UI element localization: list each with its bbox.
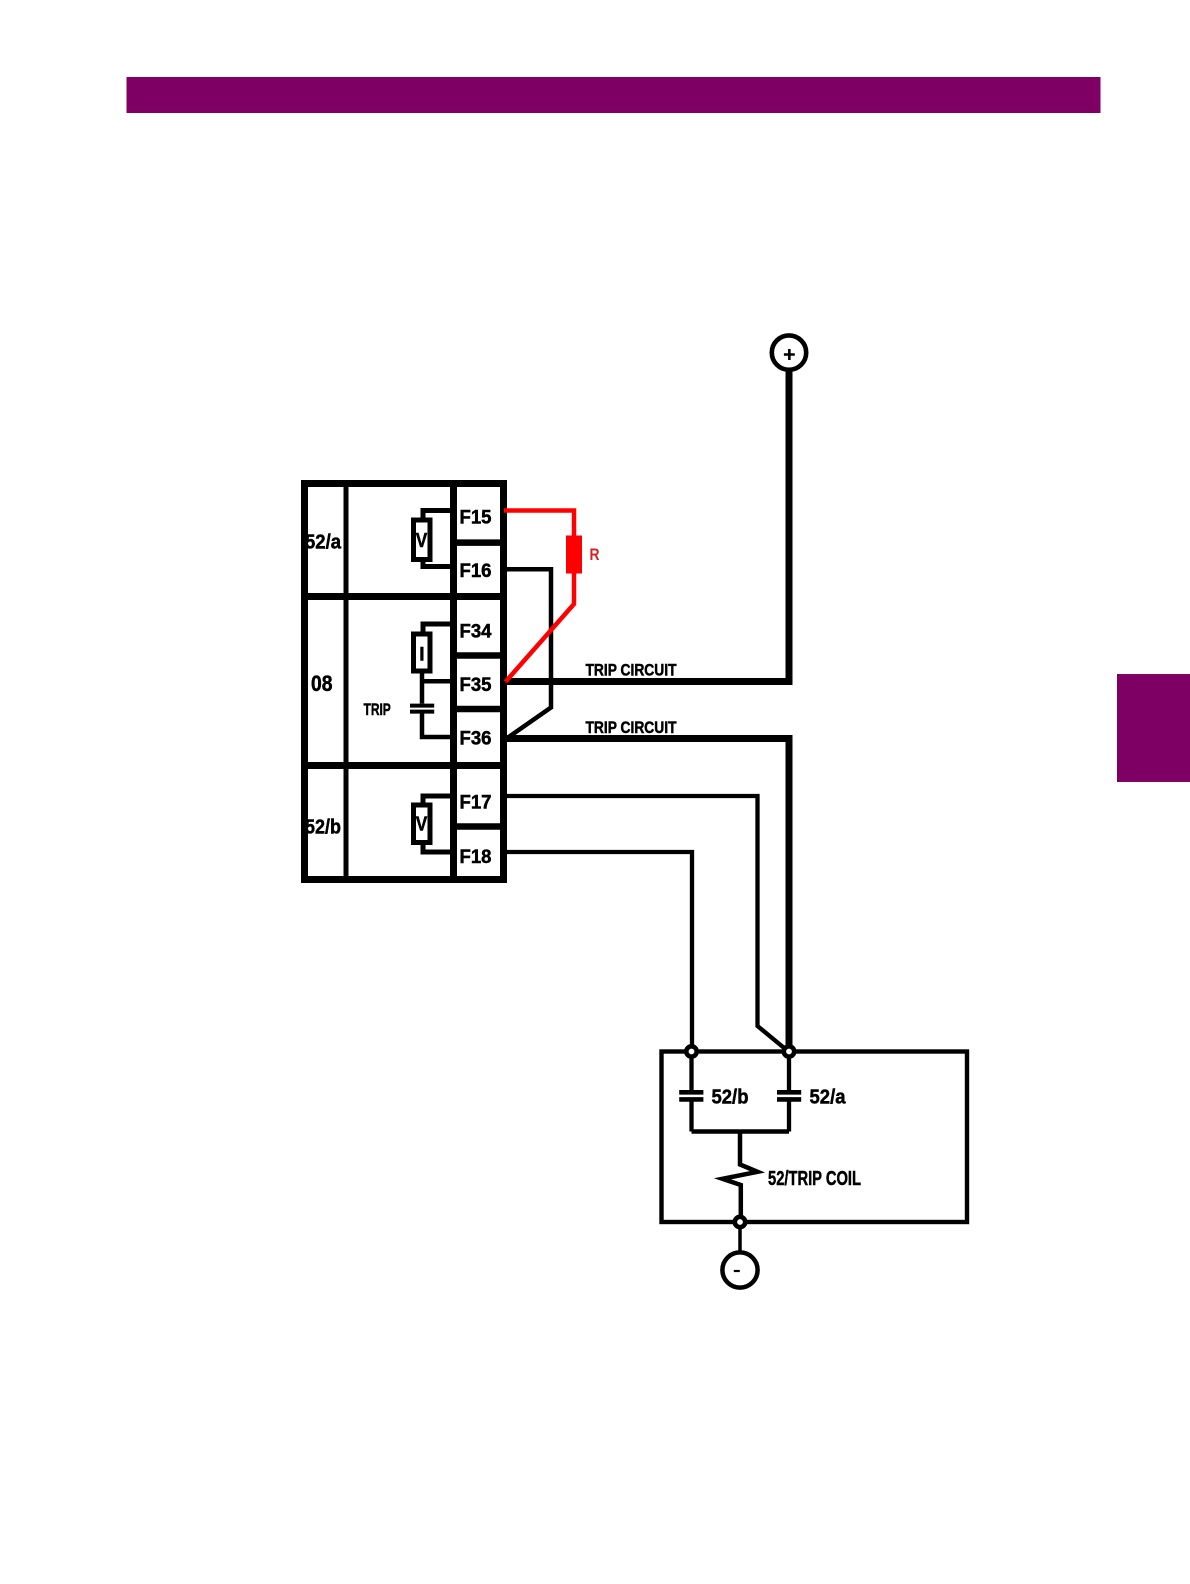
svg-text:F36: F36 — [460, 728, 492, 750]
svg-text:V: V — [416, 529, 428, 552]
svg-text:F35: F35 — [460, 674, 492, 696]
svg-text:52/a: 52/a — [810, 1085, 847, 1108]
svg-text:08: 08 — [311, 671, 333, 696]
svg-text:52/b: 52/b — [712, 1085, 749, 1108]
svg-text:R: R — [590, 545, 600, 564]
svg-text:I: I — [419, 645, 424, 666]
svg-text:F34: F34 — [460, 621, 492, 643]
svg-text:TRIP CIRCUIT: TRIP CIRCUIT — [586, 661, 678, 680]
svg-text:F17: F17 — [460, 792, 492, 814]
svg-text:F18: F18 — [460, 846, 492, 868]
svg-text:52/TRIP COIL: 52/TRIP COIL — [768, 1167, 861, 1190]
svg-text:TRIP CIRCUIT: TRIP CIRCUIT — [586, 718, 678, 737]
svg-text:TRIP: TRIP — [364, 700, 391, 719]
svg-text:F16: F16 — [460, 560, 492, 582]
svg-text:F15: F15 — [460, 507, 492, 529]
svg-text:52/b: 52/b — [305, 816, 341, 839]
svg-text:52/a: 52/a — [305, 531, 342, 554]
svg-text:V: V — [416, 813, 428, 836]
